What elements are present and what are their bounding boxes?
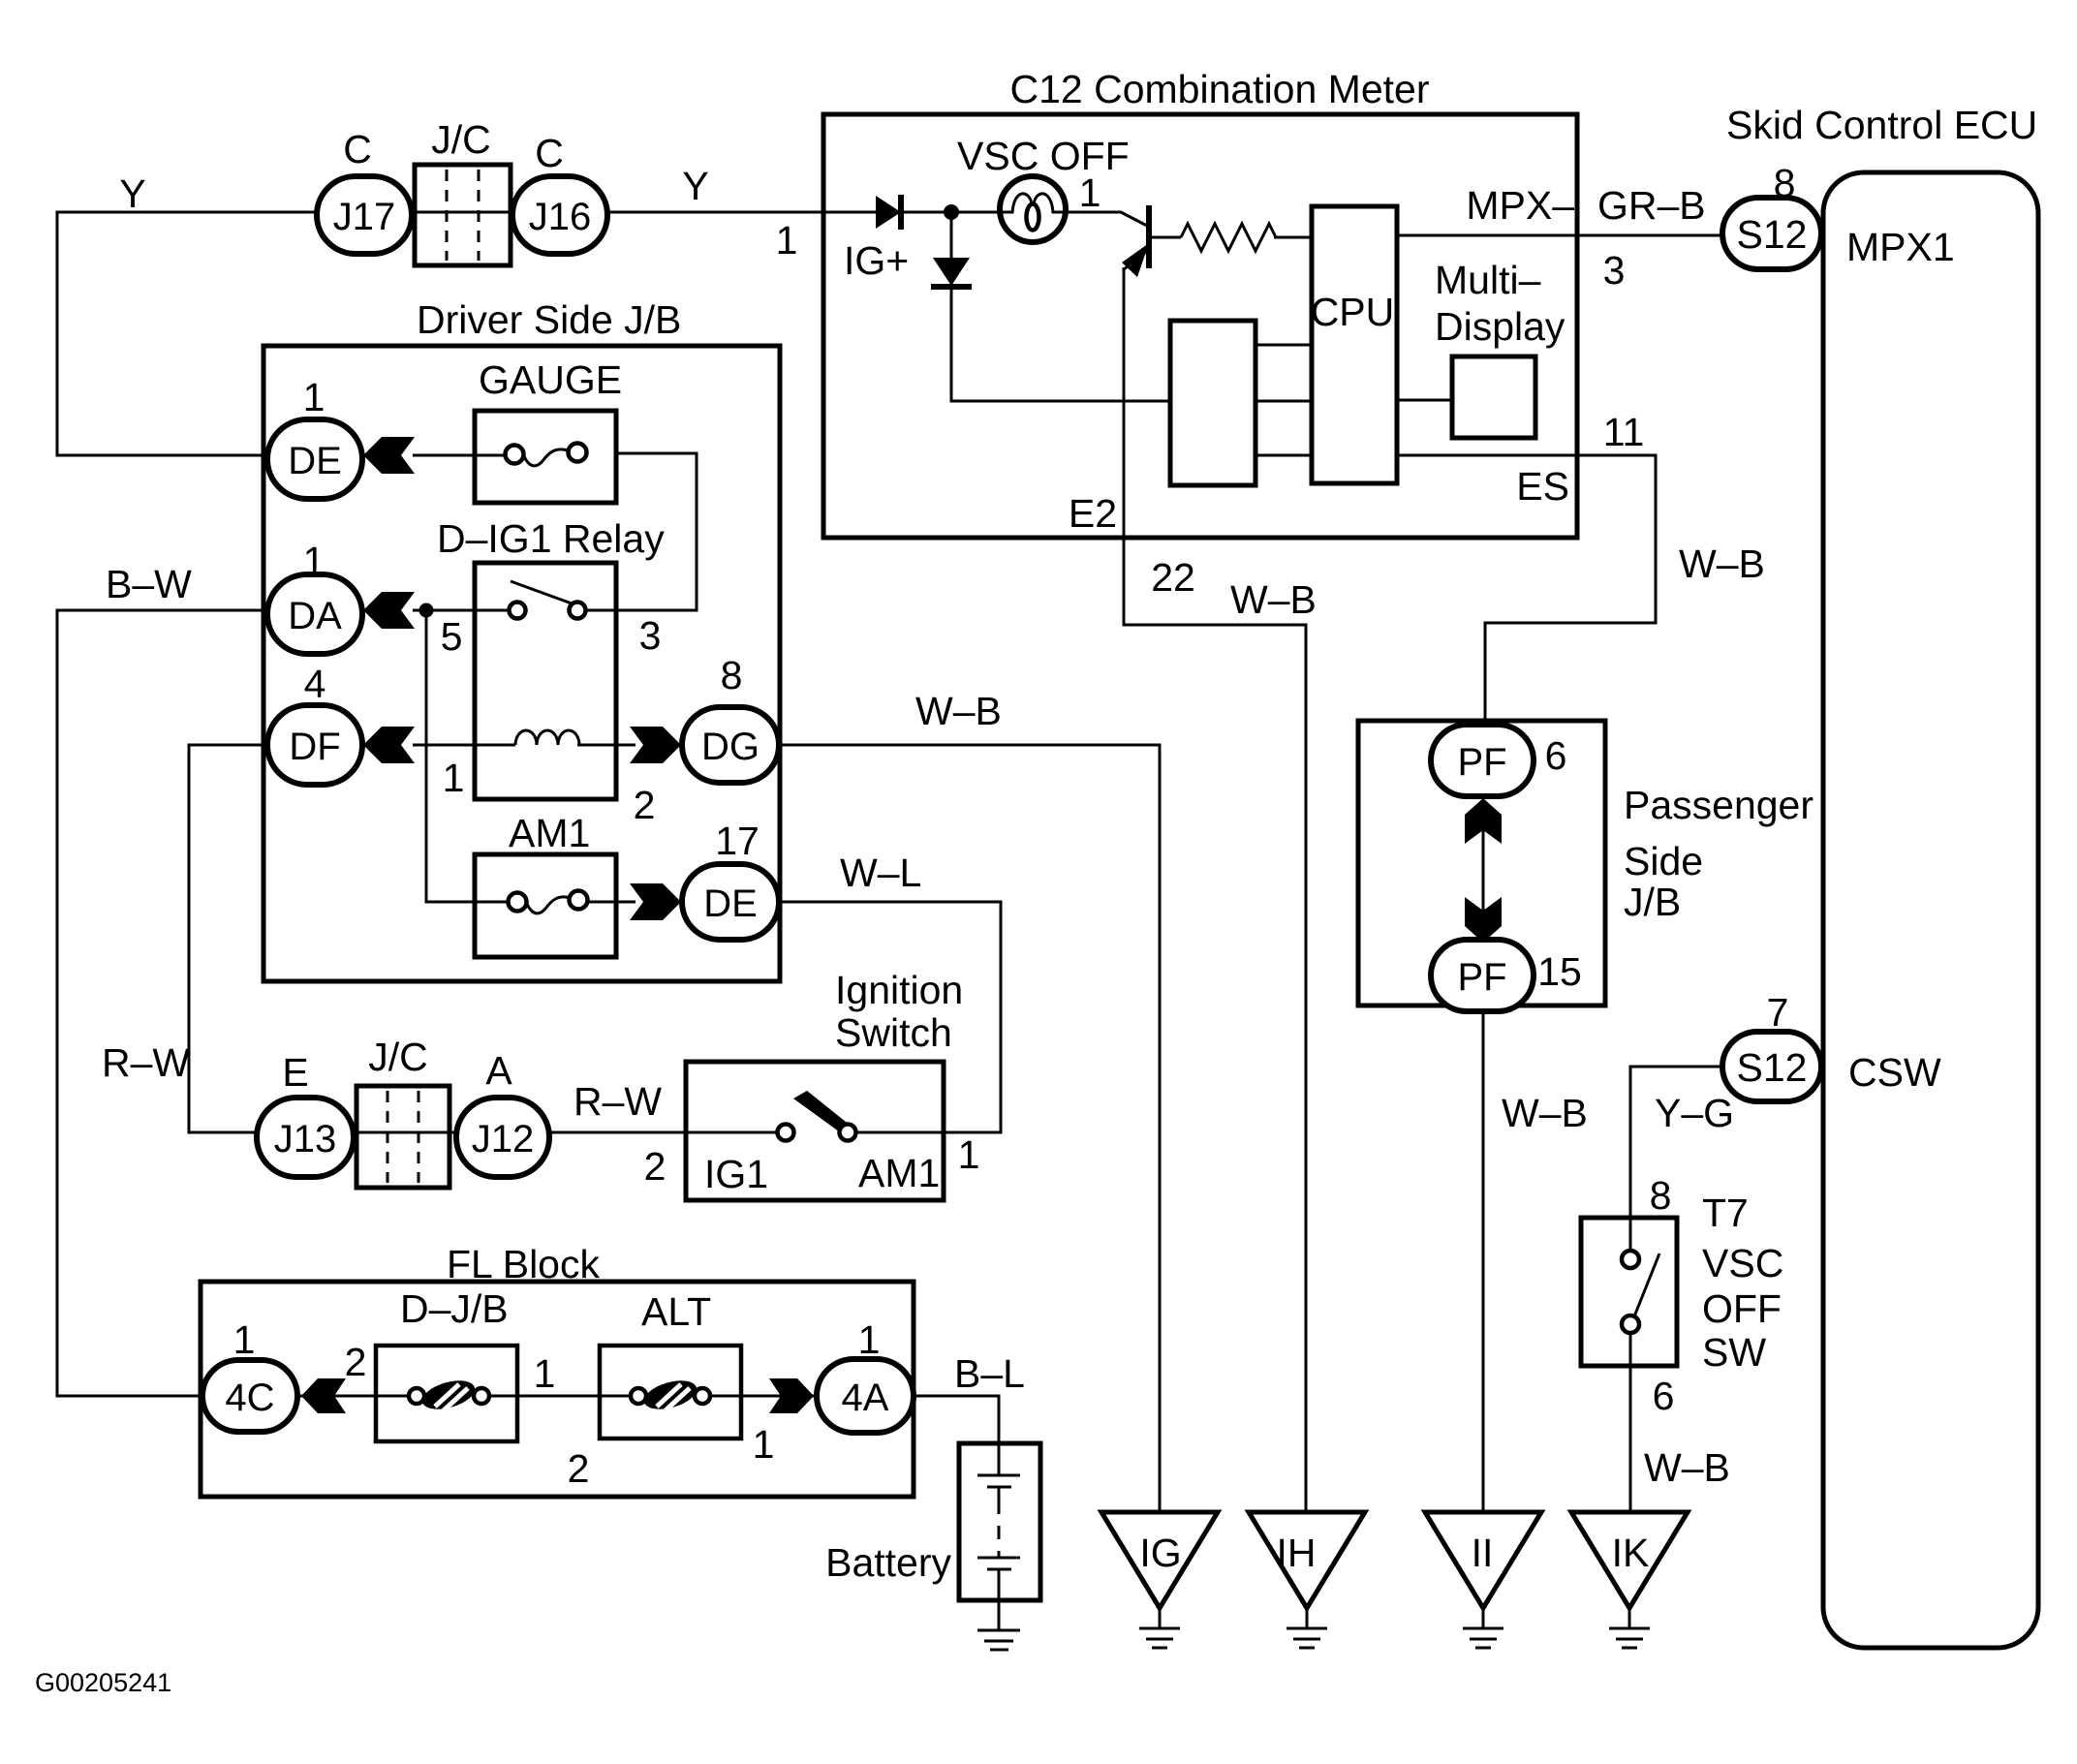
svg-text:11: 11 — [1603, 410, 1645, 454]
wire R-W: J12 to Ignition Switch IG1 pin 2 — [545, 1131, 688, 1134]
wire B-W: DA pin 1 left, down to FL block 4C pin 1 — [57, 610, 268, 1396]
wire DF arrow to relay coil pin 1 — [413, 744, 515, 747]
svg-text:5: 5 — [441, 614, 463, 659]
wire AM1 fuse to DE pin 17 arrow — [586, 901, 635, 904]
arrow into DE — [363, 437, 415, 474]
svg-text:Y: Y — [119, 171, 145, 216]
wire GAUGE fuse to DE pin 1 arrow — [413, 454, 507, 457]
svg-text:B–L: B–L — [954, 1351, 1025, 1396]
connector pin DE 17 with label — [682, 864, 779, 940]
junction connector J/C box (top, J17-J16) — [415, 165, 511, 265]
svg-text:B–W: B–W — [106, 562, 192, 606]
ground symbol below battery — [977, 1630, 1020, 1650]
connector pin DF 4 with label — [267, 705, 362, 785]
svg-text:SW: SW — [1702, 1330, 1766, 1375]
CPU block — [1311, 206, 1397, 483]
wire W-B: DG pin 8 to ground IG — [779, 745, 1160, 1514]
svg-text:ES: ES — [1516, 464, 1569, 509]
svg-text:E2: E2 — [1069, 491, 1117, 536]
wire CPU to Multi-Display — [1395, 399, 1452, 402]
wire MPX- / GR-B: CPU to Skid Control ECU pin 8 S12 — [1395, 234, 1724, 237]
svg-text:1: 1 — [534, 1351, 556, 1396]
svg-text:J/C: J/C — [431, 117, 491, 162]
svg-text:8: 8 — [721, 653, 743, 697]
fusible link D-J/B — [376, 1346, 517, 1441]
svg-text:CPU: CPU — [1311, 290, 1395, 334]
svg-text:1: 1 — [753, 1422, 775, 1467]
wire meter internal block to CPU (upper) — [1254, 344, 1312, 347]
svg-text:S12: S12 — [1737, 1045, 1808, 1090]
svg-text:2: 2 — [345, 1340, 367, 1384]
arrow out to DE 17 — [630, 883, 681, 920]
fuse AM1 — [475, 854, 616, 957]
wire 4C to D-J/B fusible link — [294, 1395, 411, 1398]
arrow into 4C — [301, 1378, 346, 1413]
label Passenger Side J/B — [1624, 783, 1813, 924]
svg-text:W–L: W–L — [840, 851, 921, 895]
svg-text:Passenger: Passenger — [1624, 783, 1813, 827]
connector J12 — [456, 1098, 549, 1177]
svg-text:1: 1 — [958, 1132, 980, 1177]
svg-text:DF: DF — [289, 726, 340, 768]
svg-text:CSW: CSW — [1848, 1050, 1941, 1095]
svg-text:1: 1 — [776, 218, 798, 263]
arrow into DA — [363, 592, 415, 629]
wire ES pin 11 W-B: CPU to Passenger Side J/B PF 6 — [1395, 455, 1656, 728]
svg-text:DA: DA — [288, 595, 342, 637]
wire meter internal block to CPU (middle) — [1254, 400, 1312, 403]
connector pin 4A 1 with label — [817, 1359, 914, 1433]
svg-text:4C: 4C — [225, 1377, 274, 1419]
svg-text:C: C — [343, 127, 372, 171]
ground IG — [1101, 1512, 1218, 1648]
wire W-B: VSC OFF SW pin 6 to ground IK — [1629, 1331, 1632, 1514]
svg-text:II: II — [1472, 1531, 1494, 1575]
svg-text:1: 1 — [443, 756, 465, 800]
connector pin DA 1 with label — [267, 574, 362, 654]
svg-text:Skid Control ECU: Skid Control ECU — [1726, 103, 2037, 147]
wire R-W: DF pin 4 down to J13 — [189, 745, 268, 1132]
svg-text:Side: Side — [1624, 839, 1703, 883]
wire battery internal and to ground — [998, 1487, 1001, 1501]
connector pin PF 15 with label — [1431, 940, 1534, 1011]
svg-text:C: C — [535, 131, 564, 175]
connector pin DE 1 with label — [267, 419, 362, 499]
arrow into 4A — [769, 1378, 814, 1413]
svg-text:MPX1: MPX1 — [1846, 225, 1955, 269]
label Multi-Display — [1435, 258, 1565, 349]
wire Y-G: CSW S12 pin 7 to VSC OFF SW pin 8 — [1630, 1067, 1724, 1253]
connector J17 — [317, 176, 412, 254]
svg-text:IG: IG — [1139, 1531, 1181, 1575]
svg-text:J12: J12 — [472, 1118, 535, 1161]
connector J16 — [512, 176, 607, 254]
diode D1 (IG+ input) — [876, 195, 904, 230]
svg-text:J13: J13 — [274, 1118, 337, 1161]
junction connector J/C box (J13-J12) — [356, 1086, 449, 1188]
node: junction dot on DA wire — [419, 603, 434, 618]
svg-text:22: 22 — [1151, 555, 1195, 600]
diode D2 (to E2) — [931, 258, 972, 290]
svg-text:3: 3 — [639, 613, 662, 658]
combination meter C12 box — [823, 114, 1577, 538]
label T7 VSC OFF SW — [1702, 1191, 1783, 1375]
svg-text:VSC: VSC — [1702, 1241, 1783, 1285]
svg-text:2: 2 — [568, 1446, 590, 1491]
svg-text:DE: DE — [288, 440, 342, 482]
wire D-J/B to ALT fusible link — [487, 1395, 633, 1398]
svg-text:IH: IH — [1277, 1531, 1317, 1575]
ground IK — [1571, 1512, 1688, 1648]
svg-text:OFF: OFF — [1702, 1286, 1782, 1331]
resistor R1 (base) — [1181, 224, 1276, 251]
svg-text:1: 1 — [1079, 170, 1101, 215]
connector pin PF 6 with label — [1431, 725, 1534, 796]
svg-text:GAUGE: GAUGE — [479, 357, 622, 402]
svg-text:W–B: W–B — [915, 689, 1002, 733]
node: junction dot below IG+ diode — [944, 204, 959, 220]
svg-text:AM1: AM1 — [858, 1151, 940, 1195]
svg-text:J/C: J/C — [368, 1035, 428, 1079]
svg-text:3: 3 — [1603, 248, 1626, 293]
Skid Control ECU box — [1823, 172, 2038, 1648]
svg-text:A: A — [485, 1048, 512, 1093]
Driver Side J/B box — [263, 346, 780, 981]
svg-text:T7: T7 — [1702, 1191, 1749, 1235]
wire junction to diode D2 — [950, 212, 953, 258]
svg-text:IG+: IG+ — [844, 238, 909, 283]
switch T7 VSC OFF SW — [1581, 1218, 1677, 1366]
arrow down (PF link) — [1465, 897, 1502, 943]
svg-text:Y: Y — [682, 164, 708, 208]
svg-text:C12 Combination Meter: C12 Combination Meter — [1010, 67, 1430, 111]
svg-text:VSC OFF: VSC OFF — [957, 134, 1130, 178]
wire meter internal block to CPU (lower) — [1254, 454, 1312, 457]
svg-text:IG1: IG1 — [704, 1152, 768, 1196]
svg-text:2: 2 — [644, 1144, 666, 1189]
svg-text:1: 1 — [303, 539, 325, 583]
wire PF6 to PF15 inside Passenger Side J/B — [1482, 794, 1485, 942]
relay D-IG1 box — [475, 563, 616, 799]
svg-text:MPX–: MPX– — [1466, 183, 1574, 228]
Passenger Side J/B box — [1358, 721, 1605, 1006]
FL Block box — [201, 1282, 914, 1497]
wire B-L: 4A pin 1 to Battery — [912, 1396, 999, 1475]
wire ALT to 4A arrow — [708, 1395, 819, 1398]
ignition switch T box — [686, 1062, 944, 1200]
svg-text:DE: DE — [703, 882, 758, 925]
svg-text:1: 1 — [858, 1317, 881, 1362]
svg-text:PF: PF — [1457, 956, 1506, 999]
ground II — [1425, 1512, 1541, 1648]
wire transistor base to resistor to CPU — [1152, 236, 1181, 239]
svg-text:IK: IK — [1612, 1531, 1650, 1575]
wire W-B: PF15 down to ground II — [1482, 1009, 1485, 1514]
fuse GAUGE — [475, 411, 616, 503]
connector pin S12 (CSW) — [1722, 1032, 1821, 1101]
svg-text:7: 7 — [1767, 990, 1789, 1035]
connector pin DG 8 with label — [682, 707, 779, 783]
wire DA arrow to D-IG1 relay pin 5 — [413, 609, 511, 612]
svg-text:Multi–: Multi– — [1435, 258, 1541, 302]
connector pin 4C 1 with label — [202, 1360, 297, 1432]
svg-text:AM1: AM1 — [509, 811, 590, 855]
connector J13 — [257, 1098, 354, 1177]
svg-text:G00205241: G00205241 — [35, 1668, 171, 1697]
wire junction down to AM1 fuse — [426, 610, 510, 902]
wire Y: J17 left, down left margin, to Driver Side J/B pin DE — [57, 212, 317, 455]
svg-text:R–W: R–W — [102, 1040, 190, 1085]
svg-text:PF: PF — [1457, 741, 1506, 784]
svg-text:GR–B: GR–B — [1597, 183, 1706, 228]
svg-text:D–IG1 Relay: D–IG1 Relay — [437, 516, 665, 561]
wire IG+ feed inside meter: diode to bulb — [825, 211, 876, 214]
svg-text:6: 6 — [1653, 1374, 1675, 1418]
svg-text:W–B: W–B — [1679, 542, 1765, 586]
svg-text:S12: S12 — [1737, 212, 1808, 257]
wire transistor emitter / E2 pin 22 W-B to ground IH — [1124, 267, 1306, 1514]
svg-text:ALT: ALT — [641, 1289, 711, 1334]
wire through junction connector J/C (J13-J12) — [349, 1131, 460, 1134]
arrow into DF — [363, 727, 415, 763]
transistor Q1 (PNP, lamp driver) — [1122, 205, 1152, 277]
svg-text:Display: Display — [1435, 304, 1565, 349]
wire inside ignition switch to contacts — [688, 1131, 778, 1134]
battery — [959, 1443, 1040, 1600]
svg-text:Switch: Switch — [835, 1010, 952, 1055]
wire bulb to transistor collector — [1063, 212, 1147, 226]
svg-text:W–B: W–B — [1644, 1445, 1730, 1490]
svg-text:2: 2 — [634, 783, 656, 827]
svg-text:1: 1 — [233, 1317, 256, 1362]
svg-text:R–W: R–W — [573, 1079, 662, 1124]
svg-text:DG: DG — [701, 726, 759, 768]
arrow out to DG — [630, 727, 681, 763]
svg-text:15: 15 — [1537, 949, 1582, 994]
svg-text:Ignition: Ignition — [835, 968, 963, 1012]
svg-text:17: 17 — [715, 819, 759, 863]
label Ignition Switch — [835, 968, 963, 1055]
ground IH — [1249, 1512, 1365, 1648]
connector pin S12 (MPX1) — [1722, 198, 1821, 269]
wire diode D2 to meter internal block — [951, 288, 1170, 401]
wire W-L: DE pin 17 to Ignition Switch AM1 pin 1 — [779, 902, 1001, 1132]
svg-text:J16: J16 — [529, 196, 592, 238]
svg-text:4A: 4A — [842, 1377, 889, 1419]
svg-text:Driver Side J/B: Driver Side J/B — [417, 297, 681, 342]
svg-text:J17: J17 — [333, 196, 396, 238]
wire Y: J16 to Combination Meter pin 1 (IG+) — [603, 211, 825, 214]
svg-text:Battery: Battery — [825, 1540, 951, 1585]
svg-text:8: 8 — [1650, 1173, 1672, 1218]
svg-text:6: 6 — [1545, 733, 1567, 778]
svg-text:J/B: J/B — [1624, 880, 1681, 924]
Multi-Display block — [1452, 356, 1535, 438]
svg-text:W–B: W–B — [1502, 1091, 1588, 1135]
wire relay coil pin 2 to DG pin 8 arrow — [577, 744, 635, 747]
svg-text:D–J/B: D–J/B — [400, 1286, 509, 1331]
svg-text:1: 1 — [303, 375, 325, 419]
wire through junction connector J/C (J17-J16) — [407, 211, 517, 214]
arrow up (PF link) — [1465, 798, 1502, 844]
wire D-IG1 relay pin 3 up to GAUGE fuse — [585, 453, 697, 610]
svg-text:E: E — [282, 1050, 308, 1095]
svg-text:W–B: W–B — [1230, 577, 1317, 622]
svg-text:Y–G: Y–G — [1655, 1091, 1734, 1135]
svg-text:4: 4 — [304, 662, 326, 706]
fusible link ALT — [600, 1346, 741, 1439]
lamp VSC OFF indicator — [1000, 176, 1066, 242]
meter internal block (driver IC) — [1170, 321, 1255, 485]
